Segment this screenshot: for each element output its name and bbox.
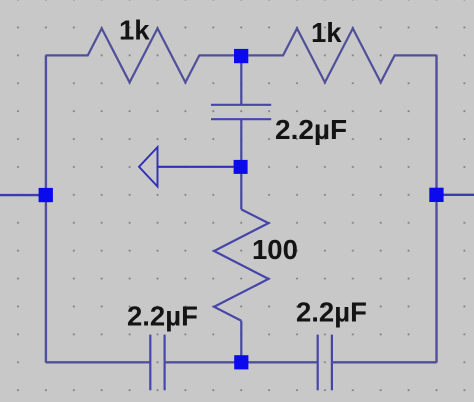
capacitor C1 (2.2µF, middle top) [211, 105, 271, 119]
junction square: right port node [429, 188, 443, 202]
junction square: middle node [234, 160, 248, 174]
capacitor C2 (2.2µF, bottom left) [150, 335, 164, 391]
junction square: top middle node [234, 49, 248, 63]
svg-text:2.2µF: 2.2µF [275, 114, 347, 145]
port stub: right output wire [443, 194, 474, 196]
resistor R2 (1k, top right) [248, 28, 436, 82]
svg-text:1k: 1k [311, 17, 342, 48]
svg-text:2.2µF: 2.2µF [127, 301, 198, 332]
wire: middle junction to resistor R3 [240, 167, 242, 209]
junction square: bottom middle node [234, 355, 248, 369]
wire: bottom left segment [46, 361, 150, 363]
svg-text:100: 100 [252, 234, 298, 265]
port stub: left input wire [0, 194, 40, 196]
wire: capacitor C1 to middle junction [240, 119, 242, 167]
wire: top junction to capacitor C1 [240, 55, 242, 104]
wire: resistor R3 to bottom junction [240, 321, 242, 363]
wire: bottom right segment [332, 361, 437, 363]
arrow (net pointer, points left) [139, 147, 234, 186]
svg-text:2.2µF: 2.2µF [296, 297, 367, 328]
label 2.2µF (C1) [275, 114, 347, 145]
resistor R1 (1k, top left) [46, 28, 234, 82]
wire: left vertical rail [45, 55, 47, 362]
wire: right vertical rail [435, 55, 437, 362]
resistor R3 (100, middle vertical) [214, 209, 268, 320]
label 2.2µF (C3) [296, 297, 367, 328]
label 1k (R2) [311, 17, 342, 48]
junction square: left port node [39, 188, 53, 202]
label 2.2µF (C2) [127, 301, 198, 332]
svg-text:1k: 1k [119, 15, 150, 46]
wire: bottom middle segment [165, 361, 318, 363]
label 100 (R3) [252, 234, 298, 265]
capacitor C3 (2.2µF, bottom right) [318, 335, 332, 391]
label 1k (R1) [119, 15, 150, 46]
